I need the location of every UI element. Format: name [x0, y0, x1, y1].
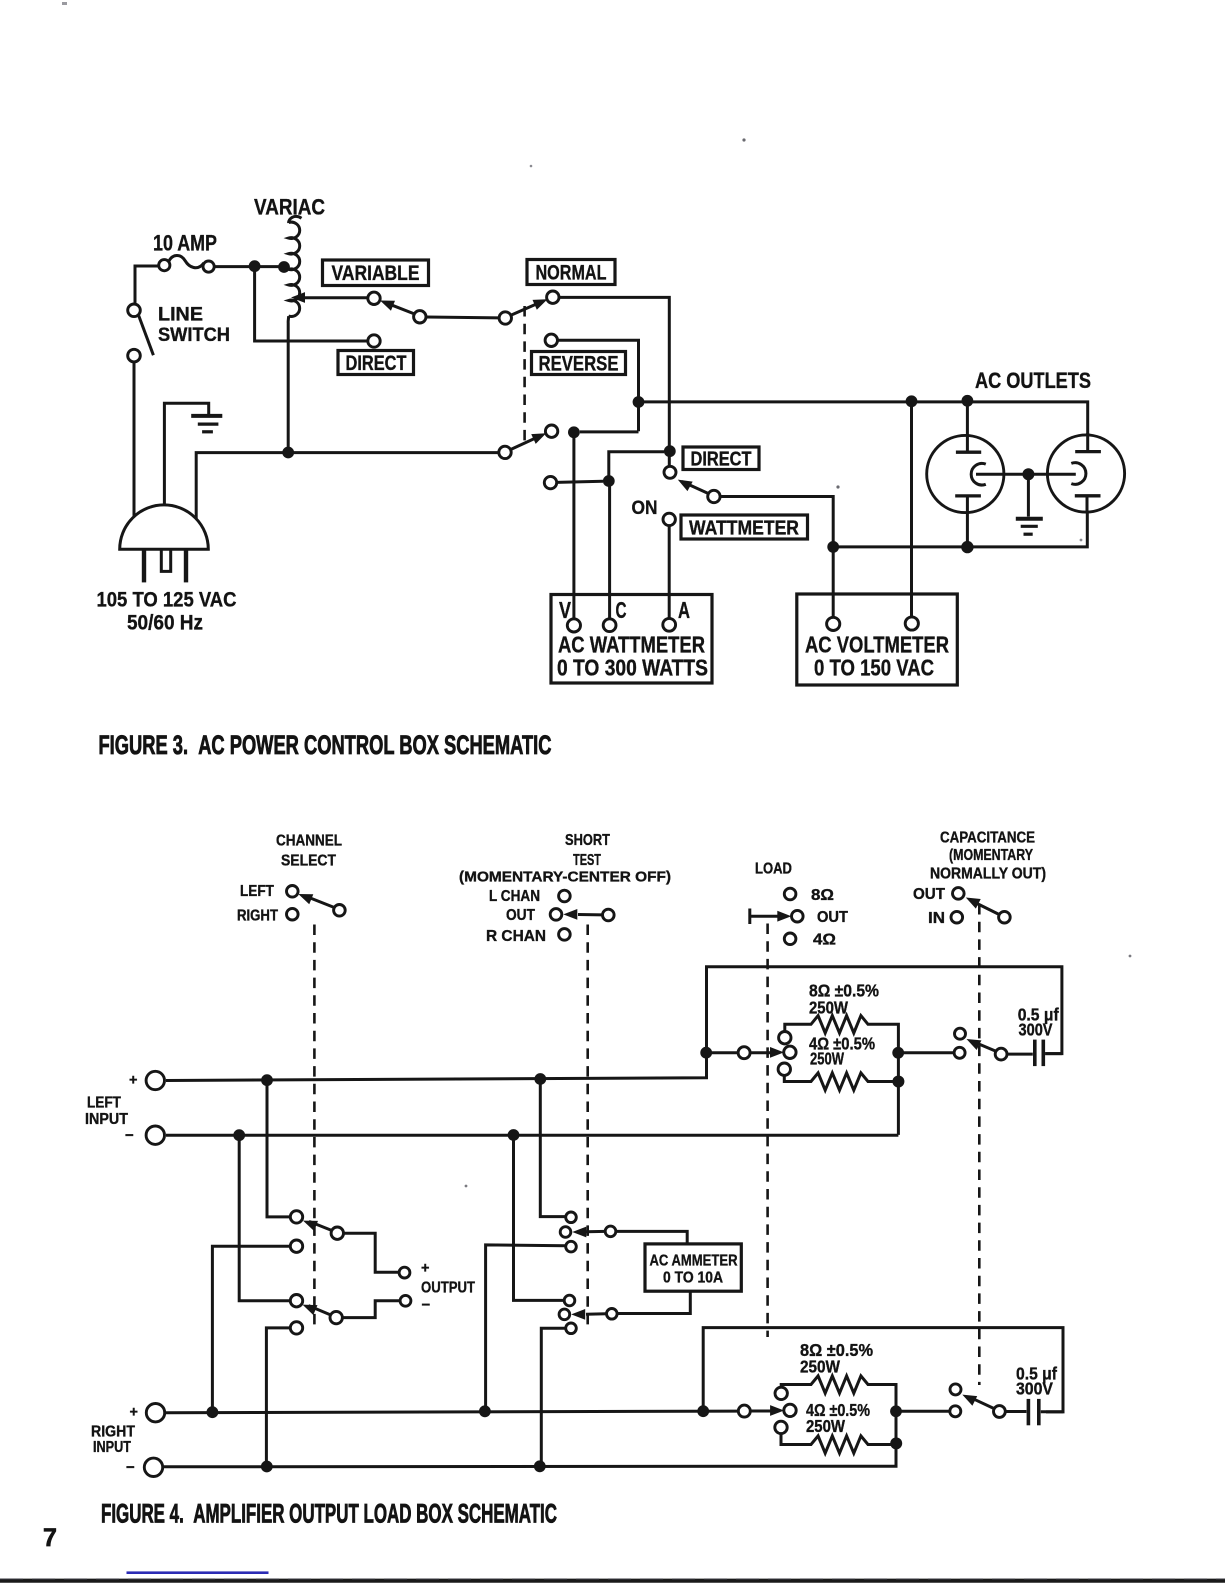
ac plug P1: [120, 505, 209, 583]
svg-text:250W: 250W: [800, 1357, 840, 1377]
OUTPUT jacks: [399, 1261, 475, 1314]
svg-text:0 TO 300 WATTS: 0 TO 300 WATTS: [557, 655, 708, 681]
boxed label DIRECT (variac selector): [338, 351, 414, 376]
svg-text:TEST: TEST: [573, 852, 601, 869]
scan artifact blue underline: [127, 1571, 269, 1574]
wire from line switch to fuse: [135, 266, 159, 305]
ac wattmeter M1 box: [551, 595, 712, 684]
svg-text:(MOMENTARY-CENTER OFF): (MOMENTARY-CENTER OFF): [459, 869, 671, 886]
ac ammeter M3 box: [645, 1244, 741, 1291]
svg-text:300V: 300V: [1019, 1020, 1053, 1040]
switch S5 direct/wattmeter: [664, 466, 720, 502]
svg-text:OUTPUT: OUTPUT: [421, 1280, 475, 1297]
capacitor C2 0.5uf 300V (right): [1005, 1399, 1063, 1425]
svg-text:CHANNEL: CHANNEL: [276, 833, 342, 850]
svg-text:DIRECT: DIRECT: [346, 352, 407, 375]
svg-text:AC AMMETER: AC AMMETER: [650, 1253, 738, 1270]
resistor R2 4 ohm 250W (left): [784, 1073, 898, 1090]
capacitance panel switch OUT/IN: [913, 886, 1010, 927]
svg-text:INPUT: INPUT: [85, 1111, 128, 1128]
right load selector switch S8: [738, 1387, 796, 1433]
reverse contact circle: [545, 334, 644, 431]
wire right- contact down to RIGHT- rail: [266, 1328, 290, 1467]
capacitor C1 0.5uf 300V (left): [1007, 1040, 1062, 1067]
short test panel switch L CHAN / OUT / R CHAN: [486, 888, 614, 945]
wire ammeter to lower short test pivot: [618, 1291, 691, 1313]
svg-text:A: A: [678, 597, 690, 623]
svg-text:+: +: [130, 1405, 138, 1421]
boxed label REVERSE: [532, 352, 626, 376]
node wire to V terminal branch: [568, 426, 639, 619]
caption FIGURE 3: [99, 730, 552, 760]
svg-text:7: 7: [43, 1524, 57, 1552]
RIGHT INPUT - terminal: [126, 1458, 163, 1476]
svg-text:IN: IN: [928, 910, 945, 927]
wire LEFT- to channel select contact: [239, 1135, 290, 1301]
switch S2 variable/direct selector: [368, 292, 426, 347]
wire voltmeter right terminal: [910, 402, 913, 618]
svg-text:OUT: OUT: [506, 907, 535, 924]
svg-text:LOAD: LOAD: [755, 861, 792, 878]
boxed label WATTMETER: [681, 515, 808, 540]
boxed label NORMAL: [527, 260, 615, 285]
svg-text:OUT: OUT: [913, 886, 946, 903]
left capacitance switch S7: [898, 1028, 1007, 1060]
switch S3 normal/reverse upper pole: [499, 291, 559, 324]
label 105 TO 125 VAC: [97, 588, 237, 612]
svg-text:V: V: [559, 597, 572, 623]
svg-text:SWITCH: SWITCH: [158, 325, 230, 346]
label LINE SWITCH: [158, 305, 230, 347]
boxed label DIRECT (wattmeter bypass): [683, 447, 759, 471]
svg-text:INPUT: INPUT: [93, 1439, 131, 1456]
svg-text:SELECT: SELECT: [281, 853, 336, 870]
label RIGHT INPUT: [91, 1424, 135, 1457]
wire C terminal branch: [609, 452, 664, 619]
label 10 AMP: [153, 231, 217, 256]
label SHORT TEST (MOMENTARY-CENTER OFF): [459, 832, 671, 886]
svg-text:250W: 250W: [810, 1049, 844, 1069]
svg-text:OUT: OUT: [817, 909, 849, 926]
label CHANNEL SELECT: [276, 833, 342, 870]
channel select panel switch LEFT/RIGHT: [237, 883, 345, 925]
switch S4 normal/reverse lower pole: [499, 425, 558, 459]
svg-text:AC OUTLETS: AC OUTLETS: [975, 368, 1091, 393]
left minus rail: [166, 1129, 898, 1141]
svg-text:10 AMP: 10 AMP: [153, 231, 217, 256]
resistor R1 8 ohm 250W (left): [785, 1016, 905, 1135]
svg-text:NORMALLY OUT): NORMALLY OUT): [930, 866, 1046, 883]
right capacitance switch S9: [896, 1384, 1005, 1418]
svg-text:−: −: [126, 1459, 135, 1476]
svg-text:RIGHT: RIGHT: [91, 1424, 135, 1441]
scan artifact page bottom edge: [0, 1579, 1225, 1581]
svg-text:L CHAN: L CHAN: [489, 888, 540, 905]
label 8 ohm 250W (right): [800, 1340, 873, 1377]
caption FIGURE 4: [101, 1499, 557, 1529]
wire short test lower to RIGHT- rail: [541, 1328, 565, 1466]
boxed label VARIABLE: [323, 260, 429, 286]
dashed link short test: [586, 925, 589, 1332]
label LEFT INPUT: [85, 1095, 128, 1129]
svg-text:4Ω: 4Ω: [813, 932, 836, 949]
label CAPACITANCE (MOMENTARY NORMALLY OUT): [930, 830, 1046, 883]
wire channel select pivots to OUTPUT jacks: [342, 1233, 400, 1317]
wire NORMAL contact to direct/wattmeter node: [559, 297, 676, 466]
svg-text:WATTMETER: WATTMETER: [689, 518, 799, 540]
right minus rail: [164, 1385, 896, 1473]
wire LEFT+ to channel select contact: [267, 1080, 290, 1217]
mechanical link wire between selector poles: [426, 316, 499, 320]
svg-text:250W: 250W: [806, 1416, 845, 1436]
wire wattmeter switch to voltmeter and outlets: [720, 497, 839, 618]
label ON: [632, 498, 658, 519]
label 4 ohm 250W (left): [809, 1034, 875, 1069]
dashed mechanical link S3 poles: [523, 306, 526, 443]
line switch S1: [128, 304, 154, 362]
label 0.5uf 300V (right): [1016, 1364, 1057, 1399]
svg-text:RIGHT: RIGHT: [237, 908, 278, 925]
spare contact of lower pole: [544, 475, 614, 489]
svg-text:ON: ON: [632, 498, 658, 519]
fuse F1 10 AMP: [159, 255, 215, 272]
ON contact to A terminal: [663, 513, 675, 618]
wire short test upper to RIGHT+ rail: [486, 1245, 566, 1411]
short test switch lower pole: [559, 1295, 617, 1333]
neutral wire to outlets: [833, 496, 1087, 554]
svg-text:DIRECT: DIRECT: [691, 449, 752, 471]
load panel switch 8ohm/OUT/4ohm: [750, 887, 849, 949]
dashed link capacitance: [978, 904, 981, 1385]
svg-text:+: +: [421, 1261, 429, 1277]
ac outlet J2 right: [1028, 433, 1124, 513]
label 8 ohm 250W (left): [809, 981, 879, 1018]
svg-text:LINE: LINE: [158, 305, 203, 326]
svg-text:−: −: [422, 1297, 431, 1314]
svg-text:SHORT: SHORT: [565, 832, 610, 849]
svg-text:0 TO 150 VAC: 0 TO 150 VAC: [814, 655, 934, 681]
svg-text:REVERSE: REVERSE: [539, 353, 619, 376]
wire right+ contact down to RIGHT+ rail: [212, 1246, 290, 1412]
wire line switch to plug left prong: [133, 362, 136, 517]
wire LEFT+ to short test contact: [540, 1079, 565, 1217]
right plus rail: [166, 1405, 738, 1418]
svg-text:105 TO 125 VAC: 105 TO 125 VAC: [97, 588, 237, 612]
svg-text:VARIABLE: VARIABLE: [332, 262, 420, 285]
wire LEFT- to short test contact: [514, 1135, 564, 1300]
svg-text:8Ω: 8Ω: [811, 887, 834, 904]
svg-text:50/60 Hz: 50/60 Hz: [127, 611, 203, 635]
dashed link channel select: [313, 925, 316, 1332]
left load selector switch S6: [706, 1032, 796, 1076]
svg-text:(MOMENTARY: (MOMENTARY: [949, 847, 1034, 864]
channel select switch pole A (+): [290, 1211, 343, 1253]
variac wiper arrow: [291, 292, 368, 303]
wire short test pivot to ammeter: [616, 1231, 687, 1244]
svg-text:+: +: [129, 1073, 137, 1089]
LEFT INPUT - terminal: [125, 1126, 165, 1144]
resistor R3 8 ohm 250W (right): [781, 1376, 902, 1450]
channel select switch pole B (-): [290, 1295, 342, 1335]
wire fuse to variac with junction dots: [214, 260, 290, 273]
ac outlet J1 left: [927, 401, 1023, 547]
chassis ground symbol near plug: [164, 403, 222, 505]
svg-text:NORMAL: NORMAL: [536, 262, 607, 285]
resistor R4 4 ohm 250W (right): [781, 1434, 896, 1454]
svg-text:LEFT: LEFT: [240, 883, 274, 900]
svg-text:250W: 250W: [809, 998, 848, 1018]
LEFT INPUT + terminal: [129, 1071, 165, 1089]
svg-text:FIGURE 4. AMPLIFIER OUTPUT LO: FIGURE 4. AMPLIFIER OUTPUT LOAD BOX SCHE…: [101, 1499, 557, 1529]
left plus rail: [166, 967, 1062, 1086]
label AC OUTLETS: [975, 368, 1091, 393]
svg-text:R CHAN: R CHAN: [486, 928, 546, 945]
wire plug right prong to reverse pole pivot: [196, 447, 499, 519]
page number 7: [43, 1524, 57, 1552]
label 50/60 Hz: [127, 611, 203, 635]
svg-text:C: C: [616, 597, 627, 623]
outlet ground node and ground symbol: [1016, 468, 1043, 534]
wire variac feed down to DIRECT contact: [255, 266, 368, 341]
dashed link load: [766, 924, 769, 1338]
svg-text:300V: 300V: [1016, 1379, 1053, 1399]
svg-text:CAPACITANCE: CAPACITANCE: [940, 830, 1035, 847]
svg-text:0 TO 10A: 0 TO 10A: [663, 1270, 723, 1287]
scan specks: [465, 138, 1132, 1187]
svg-text:VARIAC: VARIAC: [254, 195, 325, 220]
svg-text:LEFT: LEFT: [87, 1095, 121, 1112]
label 4 ohm 250W (right): [806, 1400, 870, 1436]
label VARIAC: [254, 195, 325, 220]
variac T1 winding: [288, 216, 301, 452]
RIGHT INPUT + terminal: [130, 1404, 165, 1422]
label 0.5uf 300V (left): [1018, 1005, 1059, 1040]
ac voltmeter M2 box: [797, 594, 958, 685]
svg-text:FIGURE 3. AC POWER CONTROL BO: FIGURE 3. AC POWER CONTROL BOX SCHEMATIC: [99, 730, 552, 760]
left load loop top wire: [703, 1328, 1063, 1412]
short test switch upper pole: [560, 1212, 616, 1252]
label LOAD: [755, 861, 792, 878]
svg-text:−: −: [125, 1127, 134, 1144]
ac line distribution wire to outlets: [639, 395, 1088, 452]
scan speck top left: [62, 2, 67, 5]
